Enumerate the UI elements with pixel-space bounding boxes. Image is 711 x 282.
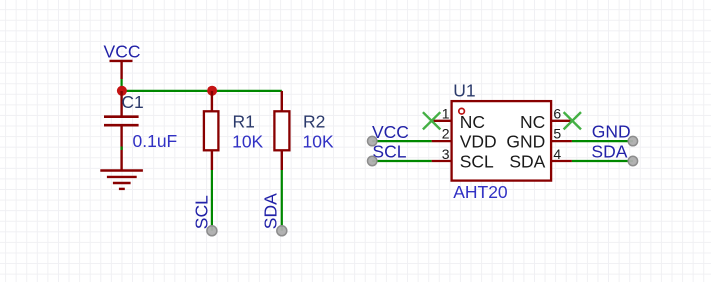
pin 5 stub: [551, 140, 572, 142]
resistor R2: [274, 91, 289, 170]
pin name SCL: [460, 152, 494, 172]
wire VCC to pin 2: [372, 140, 431, 142]
pin 1 indicator circle: [459, 108, 465, 114]
pad VCC: [368, 136, 377, 145]
svg-text:5: 5: [553, 126, 561, 142]
wire SCL to pin 3: [372, 160, 431, 162]
pin 2 number: [442, 126, 450, 142]
svg-text:6: 6: [553, 105, 561, 121]
wire R2 to SDA pad: [281, 170, 283, 231]
pin 4 stub: [551, 160, 572, 162]
pin 1 stub: [432, 120, 452, 122]
net label VCC (U1): [372, 122, 409, 142]
wire pin 5 to GND: [572, 140, 633, 142]
pin name NC (right): [520, 112, 545, 132]
value AHT20: [453, 182, 508, 202]
wire pin 4 to SDA: [572, 160, 633, 162]
svg-text:VCC: VCC: [104, 42, 141, 62]
wire cap-to-ground stub: [120, 147, 122, 151]
svg-text:1: 1: [442, 105, 450, 121]
svg-text:0.1uF: 0.1uF: [133, 131, 178, 151]
svg-text:GND: GND: [592, 121, 631, 141]
label R1: [233, 111, 255, 131]
wire R1 to SCL pad: [211, 170, 213, 231]
svg-text:SDA: SDA: [591, 141, 627, 161]
svg-text:SDA: SDA: [260, 193, 280, 229]
svg-text:VDD: VDD: [460, 132, 497, 152]
capacitor C1: [104, 91, 139, 170]
pin name VDD: [460, 132, 497, 152]
pad SDA (U1): [628, 156, 637, 165]
svg-text:VCC: VCC: [372, 122, 409, 142]
pin name SDA: [509, 152, 545, 172]
pin 6 stub: [551, 120, 572, 122]
svg-text:R2: R2: [303, 111, 325, 131]
svg-text:R1: R1: [233, 111, 255, 131]
svg-text:2: 2: [442, 126, 450, 142]
power flag VCC: [104, 42, 141, 80]
IC U1 body: [452, 101, 551, 181]
pad SDA: [277, 226, 287, 236]
no-connect X pin 1: [423, 112, 440, 129]
svg-text:NC: NC: [460, 112, 485, 132]
pin 3 stub: [432, 160, 452, 162]
pin name GND: [506, 132, 545, 152]
svg-text:SCL: SCL: [191, 195, 211, 229]
pin 3 number: [442, 146, 450, 162]
pin 1 number: [442, 105, 450, 121]
ground: [100, 171, 143, 189]
label C1: [121, 92, 143, 112]
svg-text:SCL: SCL: [372, 142, 406, 162]
net label SDA: [591, 141, 627, 161]
pad SCL (U1): [368, 156, 377, 165]
pin 2 stub: [432, 140, 452, 142]
svg-text:SCL: SCL: [460, 152, 494, 172]
junction at R1: [207, 86, 217, 96]
pin 5 number: [553, 126, 561, 142]
pin 6 number: [553, 105, 561, 121]
pad SCL: [207, 226, 217, 236]
value 10K (R1): [232, 132, 263, 152]
wire main horizontal: [122, 90, 282, 92]
svg-text:3: 3: [442, 146, 450, 162]
label U1: [453, 81, 475, 101]
net label SCL (U1): [372, 142, 406, 162]
svg-text:10K: 10K: [232, 132, 263, 152]
svg-text:10K: 10K: [303, 132, 334, 152]
svg-text:NC: NC: [520, 112, 545, 132]
svg-text:C1: C1: [121, 92, 143, 112]
svg-text:GND: GND: [506, 132, 545, 152]
net label GND: [592, 121, 631, 141]
pin name NC (left): [460, 112, 485, 132]
pin 4 number: [553, 146, 561, 162]
net label SCL (vertical): [191, 195, 211, 229]
svg-text:AHT20: AHT20: [453, 182, 508, 202]
wire VCC stem: [120, 79, 122, 91]
value 0.1uF: [133, 131, 178, 151]
no-connect X pin 6: [564, 112, 581, 129]
value 10K (R2): [303, 132, 334, 152]
label R2: [303, 111, 325, 131]
junction at C1/VCC: [117, 86, 127, 96]
resistor R1: [204, 91, 219, 170]
svg-text:U1: U1: [453, 81, 475, 101]
pad GND: [628, 136, 637, 145]
svg-text:4: 4: [553, 146, 561, 162]
svg-text:SDA: SDA: [509, 152, 545, 172]
net label SDA (vertical): [260, 193, 280, 229]
